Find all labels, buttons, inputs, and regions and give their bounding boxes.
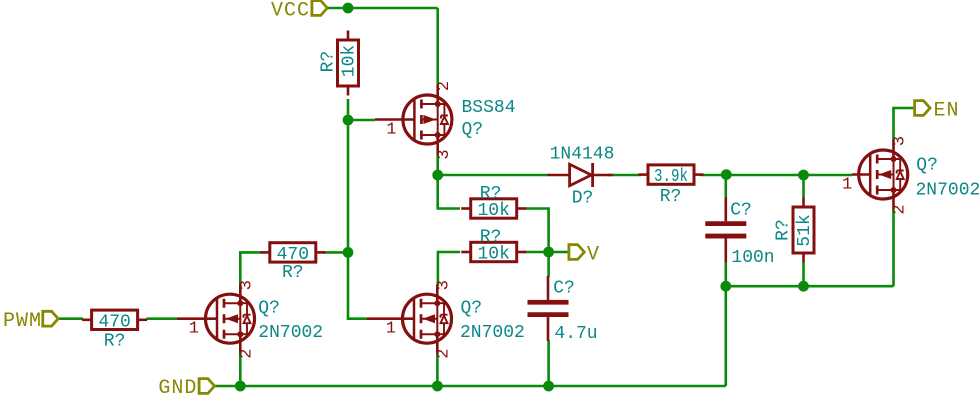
svg-text:R?: R?: [104, 332, 126, 352]
junction 51k top node: [798, 170, 809, 181]
svg-text:Q?: Q?: [258, 299, 280, 319]
svg-text:2N7002: 2N7002: [258, 323, 323, 343]
power label EN: [915, 101, 930, 116]
svg-text:3: 3: [435, 149, 454, 159]
svg-text:R?: R?: [774, 219, 794, 241]
wire 51k bottom: [802, 263, 805, 287]
wire Q2 source to GND: [239, 352, 242, 386]
svg-text:3.9k: 3.9k: [654, 167, 688, 187]
wire GND rail: [215, 385, 726, 388]
svg-text:10k: 10k: [340, 45, 360, 77]
wire R2 to Q2 gate: [147, 317, 178, 320]
resistor R4 10k upper: [461, 199, 526, 218]
svg-text:4.7u: 4.7u: [554, 324, 597, 344]
diode D1 1N4148: [548, 163, 613, 187]
wire GND riser right: [724, 286, 727, 386]
junction diode-R5 node: [721, 169, 732, 180]
transistor Q1 BSS84: [375, 81, 454, 160]
junction BSS84 source node: [432, 170, 443, 181]
svg-text:R?: R?: [480, 184, 502, 204]
wire C1 bottom to GND: [547, 340, 550, 386]
svg-text:EN: EN: [934, 100, 960, 123]
junction V node: [543, 247, 554, 258]
svg-text:470: 470: [277, 245, 309, 265]
svg-text:100n: 100n: [731, 248, 774, 268]
wire 51k top: [802, 175, 805, 198]
svg-text:2: 2: [435, 349, 454, 359]
svg-text:2: 2: [435, 81, 454, 91]
svg-text:3: 3: [891, 136, 910, 146]
wire BSS84 source to node: [436, 153, 439, 175]
wire bottom rail right: [726, 285, 894, 288]
power label VCC: [312, 1, 327, 16]
svg-text:2: 2: [891, 204, 910, 214]
svg-text:1: 1: [189, 320, 199, 339]
resistor R1 10k vertical: [338, 31, 359, 96]
junction GND C1: [543, 381, 554, 392]
wire lower 10k to node V: [525, 251, 549, 254]
wire 470b to Q2 drain: [240, 252, 262, 285]
power label V: [569, 245, 584, 260]
svg-text:3: 3: [238, 280, 257, 290]
wire node to V flag: [549, 251, 569, 254]
resistor R6 3.9k: [639, 165, 704, 184]
svg-text:3: 3: [435, 280, 454, 290]
svg-text:R?: R?: [480, 228, 502, 248]
junction VCC rail: [343, 3, 354, 14]
wire 470b right to long vertical: [324, 251, 349, 254]
wire long vertical to Q3 gate: [348, 120, 367, 319]
svg-text:2N7002: 2N7002: [916, 181, 979, 201]
svg-text:VCC: VCC: [271, 0, 310, 23]
svg-text:Q?: Q?: [462, 120, 484, 140]
junction 51k bottom node: [798, 281, 809, 292]
svg-text:470: 470: [98, 312, 130, 332]
wire junction to BSS84 gate: [348, 119, 375, 122]
svg-text:GND: GND: [158, 377, 197, 395]
junction GND Q3: [432, 381, 443, 392]
power label PWM: [43, 311, 58, 326]
junction 470b node: [343, 247, 354, 258]
wire PWM to R2: [58, 317, 83, 320]
wire VCC rail: [327, 7, 437, 10]
svg-text:D?: D?: [572, 189, 594, 209]
svg-text:R?: R?: [282, 263, 304, 283]
wire C2 bottom: [724, 262, 727, 287]
svg-text:1N4148: 1N4148: [550, 145, 615, 165]
svg-text:Q?: Q?: [916, 156, 938, 176]
wire C2 top: [724, 175, 727, 199]
wire Q4 drain to EN: [894, 108, 916, 141]
wire node to Q4 gate: [804, 174, 853, 177]
resistor R3 470: [260, 243, 325, 262]
svg-text:R?: R?: [660, 187, 682, 207]
transistor Q2 2N7002: [177, 280, 257, 359]
svg-text:51k: 51k: [795, 214, 815, 246]
resistor R7 51k vertical: [793, 198, 814, 263]
capacitor C2 100n: [705, 197, 746, 262]
svg-text:C?: C?: [730, 201, 752, 221]
wire VCC to BSS84 drain: [436, 8, 439, 87]
svg-text:2N7002: 2N7002: [460, 323, 525, 343]
svg-text:PWM: PWM: [3, 310, 42, 333]
svg-text:2: 2: [238, 349, 257, 359]
junction C2 bottom node: [720, 281, 731, 292]
wire lower 10k left to Q3 drain: [438, 252, 460, 286]
svg-text:V: V: [587, 244, 600, 267]
wire node to node 51k: [726, 174, 803, 177]
wire upper 10k to corner down: [525, 209, 549, 253]
svg-text:C?: C?: [553, 279, 575, 299]
svg-text:R?: R?: [319, 51, 339, 73]
svg-text:10k: 10k: [477, 245, 509, 265]
junction GND Q2: [235, 381, 246, 392]
svg-text:Q?: Q?: [461, 299, 483, 319]
svg-text:10k: 10k: [477, 201, 509, 221]
junction BSS84 gate node: [343, 115, 354, 126]
svg-text:1: 1: [842, 176, 852, 195]
resistor R2 470: [82, 310, 147, 329]
transistor Q4 2N7002: [842, 136, 910, 215]
wire Q3 source to GND: [436, 352, 439, 386]
wire R5 to node C100n: [701, 174, 727, 177]
svg-text:1: 1: [386, 121, 396, 140]
resistor R5 10k lower: [461, 242, 526, 261]
wire C1 top: [547, 252, 550, 277]
capacitor C1 4.7u: [528, 276, 569, 341]
wire diode to R5: [607, 174, 641, 177]
wire R1 to junction: [347, 99, 350, 120]
svg-text:BSS84: BSS84: [462, 98, 516, 118]
wire node to diode: [438, 174, 548, 177]
power label GND: [199, 379, 214, 394]
wire node down to upper 10k: [438, 175, 460, 209]
transistor Q3 2N7002: [367, 280, 454, 359]
svg-text:1: 1: [386, 320, 396, 339]
wire Q4 source down: [892, 208, 895, 286]
